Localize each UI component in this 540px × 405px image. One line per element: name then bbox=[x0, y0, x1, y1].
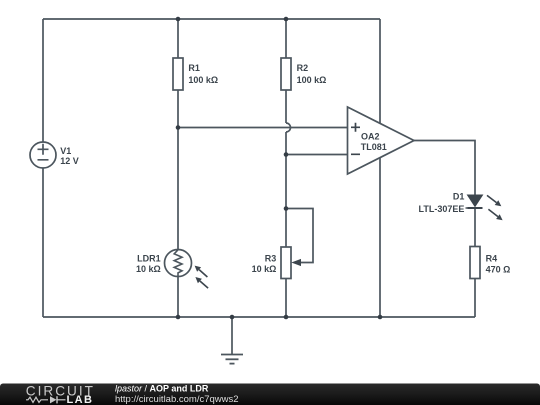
svg-text:http://circuitlab.com/c7qwws2: http://circuitlab.com/c7qwws2 bbox=[115, 394, 239, 405]
svg-text:12 V: 12 V bbox=[60, 156, 79, 166]
svg-text:D1: D1 bbox=[453, 191, 465, 201]
svg-text:lpastor / AOP and LDR: lpastor / AOP and LDR bbox=[115, 383, 209, 393]
svg-text:LTL-307EE: LTL-307EE bbox=[419, 204, 465, 214]
svg-text:OA2: OA2 bbox=[361, 132, 380, 142]
svg-text:100 kΩ: 100 kΩ bbox=[188, 75, 218, 85]
svg-text:TL081: TL081 bbox=[361, 142, 387, 152]
svg-text:10 kΩ: 10 kΩ bbox=[252, 264, 277, 274]
svg-text:R3: R3 bbox=[265, 254, 277, 264]
svg-text:10 kΩ: 10 kΩ bbox=[136, 264, 161, 274]
svg-text:470 Ω: 470 Ω bbox=[486, 264, 511, 274]
svg-text:R4: R4 bbox=[486, 253, 498, 263]
svg-text:LDR1: LDR1 bbox=[137, 254, 161, 264]
svg-text:100 kΩ: 100 kΩ bbox=[297, 75, 327, 85]
svg-text:R2: R2 bbox=[297, 63, 309, 73]
svg-text:R1: R1 bbox=[188, 63, 200, 73]
svg-text:LAB: LAB bbox=[67, 394, 94, 405]
svg-text:V1: V1 bbox=[60, 146, 71, 156]
